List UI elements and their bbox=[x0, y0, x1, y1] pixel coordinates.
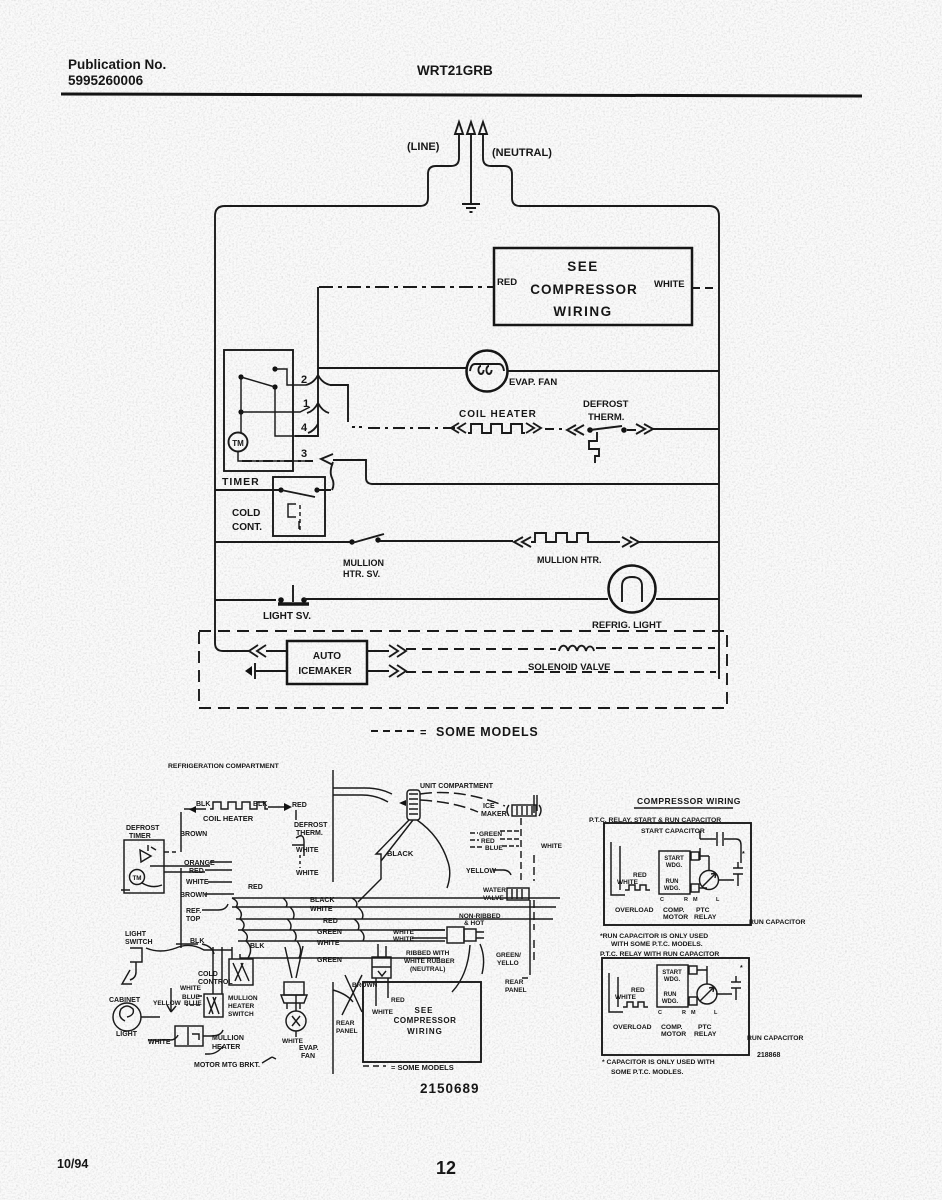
svg-text:COMPRESSOR WIRING: COMPRESSOR WIRING bbox=[637, 796, 741, 806]
svg-text:TOP: TOP bbox=[186, 916, 201, 923]
svg-text:START: START bbox=[664, 856, 684, 862]
svg-text:WHITE: WHITE bbox=[615, 994, 637, 1001]
svg-text:WHITE: WHITE bbox=[282, 1038, 304, 1045]
svg-text:EVAP.: EVAP. bbox=[299, 1045, 319, 1052]
svg-text:RELAY: RELAY bbox=[694, 914, 717, 921]
svg-text:RUN: RUN bbox=[666, 879, 679, 885]
svg-text:RIBBED WITH: RIBBED WITH bbox=[406, 950, 450, 957]
svg-text:5995260006: 5995260006 bbox=[68, 73, 144, 88]
svg-text:C: C bbox=[660, 897, 664, 903]
svg-text:REF.: REF. bbox=[186, 908, 201, 915]
svg-text:MULLION: MULLION bbox=[228, 995, 258, 1002]
svg-text:GREEN: GREEN bbox=[317, 929, 342, 936]
svg-text:WITH SOME P.T.C. MODELS.: WITH SOME P.T.C. MODELS. bbox=[611, 941, 703, 948]
svg-text:NON-RIBBED: NON-RIBBED bbox=[459, 913, 501, 920]
svg-text:RUN CAPACITOR: RUN CAPACITOR bbox=[749, 919, 805, 926]
svg-text:WHITE: WHITE bbox=[541, 843, 563, 850]
svg-text:BLUE: BLUE bbox=[485, 845, 503, 852]
svg-text:WHITE: WHITE bbox=[296, 847, 319, 854]
svg-text:RED: RED bbox=[633, 872, 647, 879]
svg-text:COMP.: COMP. bbox=[663, 907, 685, 914]
svg-text:YELLOW: YELLOW bbox=[466, 868, 496, 875]
svg-text:C: C bbox=[658, 1010, 662, 1016]
svg-text:M: M bbox=[693, 897, 698, 903]
svg-text:WHITE: WHITE bbox=[148, 1039, 171, 1046]
svg-text:* CAPACITOR IS ONLY USED WITH: * CAPACITOR IS ONLY USED WITH bbox=[602, 1059, 715, 1066]
svg-text:COMPRESSOR: COMPRESSOR bbox=[394, 1016, 457, 1025]
svg-text:WHITE: WHITE bbox=[296, 870, 319, 877]
svg-text:Publication No.: Publication No. bbox=[68, 57, 166, 72]
svg-text:MULLION HTR.: MULLION HTR. bbox=[537, 555, 602, 565]
svg-text:MOTOR: MOTOR bbox=[663, 914, 688, 921]
svg-text:REAR: REAR bbox=[505, 979, 524, 986]
svg-text:218868: 218868 bbox=[757, 1052, 780, 1059]
svg-text:= SOME MODELS: = SOME MODELS bbox=[391, 1063, 454, 1072]
svg-text:=: = bbox=[420, 727, 426, 739]
svg-text:BLK: BLK bbox=[253, 801, 267, 808]
svg-text:ICEMAKER: ICEMAKER bbox=[298, 666, 352, 677]
svg-text:UNIT COMPARTMENT: UNIT COMPARTMENT bbox=[420, 783, 494, 790]
svg-text:10/94: 10/94 bbox=[57, 1157, 88, 1171]
svg-text:WIRING: WIRING bbox=[407, 1027, 443, 1036]
svg-text:1: 1 bbox=[303, 398, 309, 410]
svg-text:M: M bbox=[691, 1010, 696, 1016]
svg-text:SOME P.T.C. MODLES.: SOME P.T.C. MODLES. bbox=[611, 1069, 683, 1076]
svg-text:*: * bbox=[742, 851, 745, 858]
svg-text:WHITE: WHITE bbox=[393, 929, 415, 936]
svg-text:& HOT: & HOT bbox=[464, 920, 484, 927]
svg-text:TM: TM bbox=[132, 875, 141, 882]
svg-text:WDG.: WDG. bbox=[664, 977, 681, 983]
svg-text:(NEUTRAL): (NEUTRAL) bbox=[410, 966, 445, 973]
svg-text:BLK: BLK bbox=[250, 943, 264, 950]
svg-text:WDG.: WDG. bbox=[662, 999, 679, 1005]
svg-text:R: R bbox=[684, 897, 688, 903]
svg-text:THERM.: THERM. bbox=[588, 412, 624, 423]
svg-text:(NEUTRAL): (NEUTRAL) bbox=[492, 147, 552, 159]
svg-text:PTC: PTC bbox=[696, 907, 710, 914]
svg-text:BLK: BLK bbox=[196, 801, 210, 808]
svg-text:PTC: PTC bbox=[698, 1024, 712, 1031]
svg-text:REFRIG. LIGHT: REFRIG. LIGHT bbox=[592, 620, 662, 631]
svg-text:WHITE: WHITE bbox=[317, 940, 340, 947]
svg-text:MOTOR MTG BRKT.: MOTOR MTG BRKT. bbox=[194, 1062, 260, 1069]
svg-text:WRT21GRB: WRT21GRB bbox=[417, 63, 493, 78]
svg-text:VALVE: VALVE bbox=[483, 895, 504, 902]
svg-text:PANEL: PANEL bbox=[336, 1028, 358, 1035]
svg-text:TIMER: TIMER bbox=[129, 833, 151, 840]
svg-text:GREEN: GREEN bbox=[317, 957, 342, 964]
svg-text:WHITE: WHITE bbox=[393, 936, 415, 943]
svg-text:PANEL: PANEL bbox=[505, 987, 527, 994]
svg-text:RED: RED bbox=[481, 838, 495, 845]
svg-text:3: 3 bbox=[301, 448, 307, 460]
svg-text:RED: RED bbox=[497, 277, 517, 288]
svg-text:WHITE: WHITE bbox=[186, 879, 209, 886]
svg-text:RUN CAPACITOR: RUN CAPACITOR bbox=[747, 1035, 803, 1042]
svg-text:ICE: ICE bbox=[483, 803, 495, 810]
svg-text:CONT.: CONT. bbox=[232, 522, 262, 533]
svg-text:DEFROST: DEFROST bbox=[294, 822, 328, 829]
svg-text:RED: RED bbox=[248, 884, 263, 891]
svg-text:SWITCH: SWITCH bbox=[228, 1011, 254, 1018]
svg-text:BLUE: BLUE bbox=[184, 1000, 202, 1007]
svg-text:RED: RED bbox=[189, 868, 204, 875]
svg-text:FAN: FAN bbox=[301, 1053, 315, 1060]
svg-text:COMPRESSOR: COMPRESSOR bbox=[530, 282, 638, 297]
svg-text:WHITE: WHITE bbox=[180, 985, 202, 992]
svg-text:WHITE: WHITE bbox=[372, 1009, 394, 1016]
svg-text:EVAP. FAN: EVAP. FAN bbox=[509, 377, 557, 388]
svg-text:OVERLOAD: OVERLOAD bbox=[615, 907, 654, 914]
svg-text:MOTOR: MOTOR bbox=[661, 1031, 686, 1038]
svg-text:LIGHT: LIGHT bbox=[125, 931, 147, 938]
svg-text:RED: RED bbox=[292, 802, 307, 809]
svg-text:COMP.: COMP. bbox=[661, 1024, 683, 1031]
svg-text:SOME MODELS: SOME MODELS bbox=[436, 725, 539, 739]
svg-text:REFRIGERATION COMPARTMENT: REFRIGERATION COMPARTMENT bbox=[168, 763, 280, 770]
svg-text:HEATER: HEATER bbox=[228, 1003, 255, 1010]
svg-text:AUTO: AUTO bbox=[313, 651, 341, 662]
svg-text:COIL HEATER: COIL HEATER bbox=[459, 409, 537, 420]
svg-text:START: START bbox=[662, 970, 682, 976]
svg-text:COIL HEATER: COIL HEATER bbox=[203, 814, 254, 823]
svg-text:SEE: SEE bbox=[414, 1006, 433, 1015]
svg-text:RUN: RUN bbox=[664, 992, 677, 998]
svg-text:WHITE RUBBER: WHITE RUBBER bbox=[404, 958, 455, 965]
svg-text:RED: RED bbox=[323, 918, 338, 925]
svg-text:GREEN/: GREEN/ bbox=[496, 952, 521, 959]
svg-text:LIGHT: LIGHT bbox=[116, 1031, 138, 1038]
svg-text:MULLION: MULLION bbox=[343, 558, 384, 568]
svg-text:BROWN: BROWN bbox=[180, 892, 207, 899]
svg-text:COLD: COLD bbox=[198, 971, 218, 978]
svg-text:WATER: WATER bbox=[483, 887, 506, 894]
svg-text:MAKER: MAKER bbox=[481, 811, 507, 818]
svg-text:HEATER: HEATER bbox=[212, 1044, 240, 1051]
svg-text:DEFROST: DEFROST bbox=[583, 399, 629, 410]
svg-text:RED: RED bbox=[391, 997, 405, 1004]
svg-text:TM: TM bbox=[232, 439, 244, 448]
svg-text:TIMER: TIMER bbox=[222, 476, 260, 488]
svg-text:WDG.: WDG. bbox=[666, 863, 683, 869]
svg-text:RED: RED bbox=[631, 987, 645, 994]
svg-text:4: 4 bbox=[301, 422, 308, 434]
svg-text:REAR: REAR bbox=[336, 1020, 355, 1027]
svg-text:HTR. SV.: HTR. SV. bbox=[343, 569, 380, 579]
svg-text:2150689: 2150689 bbox=[420, 1081, 480, 1096]
svg-text:12: 12 bbox=[436, 1158, 456, 1178]
svg-text:WIRING: WIRING bbox=[553, 304, 612, 319]
svg-text:COLD: COLD bbox=[232, 508, 260, 519]
svg-text:*RUN CAPACITOR IS ONLY USED: *RUN CAPACITOR IS ONLY USED bbox=[600, 933, 708, 940]
svg-text:BROWN: BROWN bbox=[180, 831, 207, 838]
svg-text:(LINE): (LINE) bbox=[407, 141, 440, 153]
svg-text:WHITE: WHITE bbox=[654, 279, 685, 290]
svg-text:OVERLOAD: OVERLOAD bbox=[613, 1024, 652, 1031]
svg-text:BLACK: BLACK bbox=[387, 849, 414, 858]
svg-text:P.T.C. RELAY WITH RUN CAPACITO: P.T.C. RELAY WITH RUN CAPACITOR bbox=[600, 951, 719, 958]
svg-text:DEFROST: DEFROST bbox=[126, 825, 160, 832]
svg-text:START CAPACITOR: START CAPACITOR bbox=[641, 828, 705, 835]
svg-text:WDG.: WDG. bbox=[664, 886, 681, 892]
svg-text:LIGHT SV.: LIGHT SV. bbox=[263, 611, 311, 622]
svg-text:BLACK: BLACK bbox=[310, 897, 335, 904]
svg-text:RELAY: RELAY bbox=[694, 1031, 717, 1038]
svg-text:YELLO: YELLO bbox=[497, 960, 519, 967]
svg-text:GREEN: GREEN bbox=[479, 831, 502, 838]
svg-text:ORANGE: ORANGE bbox=[184, 860, 215, 867]
svg-text:WHITE: WHITE bbox=[310, 906, 333, 913]
svg-text:SWITCH: SWITCH bbox=[125, 939, 153, 946]
svg-text:SEE: SEE bbox=[567, 259, 599, 274]
svg-text:CONTROL: CONTROL bbox=[198, 979, 233, 986]
svg-text:R: R bbox=[682, 1010, 686, 1016]
svg-text:*: * bbox=[740, 965, 743, 972]
